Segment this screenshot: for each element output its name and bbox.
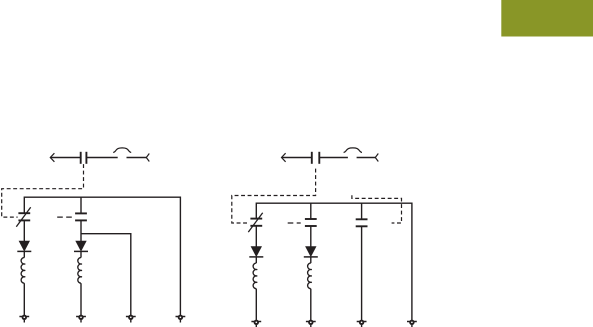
inductor L2 [78, 258, 82, 284]
capacitor C2 [75, 213, 87, 220]
feed line arrow (right circuit) [282, 153, 312, 162]
wire L3 to ground [255, 289, 257, 322]
tap wire node to third branch [81, 234, 131, 317]
feed line arrow (left circuit) [50, 153, 80, 162]
ground [357, 320, 367, 327]
wire link gap to fork [127, 157, 147, 159]
diode D1 [17, 241, 31, 251]
capacitor C4 [305, 219, 317, 226]
wire link gap to fork (right) [357, 157, 376, 159]
dashed trimmer linkage (right side) [352, 195, 402, 223]
ground [126, 315, 136, 323]
ground [407, 320, 417, 327]
variable capacitor VC2 [248, 213, 262, 232]
ground [251, 320, 261, 327]
wire C3 to link gap [319, 157, 348, 159]
branch wire bus to C4 [310, 203, 312, 219]
mechanical linkage dashed path (left circuit) [2, 164, 84, 217]
inductor L1 [21, 258, 25, 284]
diode D4 [304, 247, 318, 257]
dashed gang link to C4 [288, 222, 301, 224]
ground [306, 320, 316, 327]
wire L1 to ground [23, 283, 25, 316]
wire D3 to L3 [255, 257, 257, 263]
bus wire with end branches (left circuit) [24, 197, 180, 316]
inductor L4 [308, 263, 312, 289]
wire C4 to D4 [310, 226, 312, 247]
ground [76, 315, 86, 323]
wire D1 to L1 [23, 251, 25, 257]
diode D2 [74, 241, 88, 251]
capacitor C5 [356, 219, 368, 226]
wire D2 to L2 [80, 251, 82, 257]
feed line fork end (right circuit) [375, 154, 378, 162]
diode D3 [249, 247, 263, 257]
ground [19, 315, 29, 323]
bus wire with end branches (right circuit) [256, 203, 412, 321]
wire VC2 to D3 [255, 226, 257, 247]
wire D4 to L4 [310, 257, 312, 263]
branch wire bus to C5 [361, 203, 363, 219]
feed line fork end (left circuit) [146, 154, 149, 162]
coupling capacitor C1 [81, 152, 87, 164]
wire C2 to D2 [80, 220, 82, 241]
inductor L3 [253, 263, 257, 289]
variable capacitor VC1 [16, 207, 30, 226]
mechanical linkage dashed path (right circuit) [232, 169, 316, 223]
dashed gang link to C2 [57, 216, 72, 218]
link coupling arc L-link [113, 148, 131, 153]
wire L2 to ground [80, 283, 82, 316]
branch wire bus to C2 [80, 197, 82, 213]
page corner color block [501, 0, 593, 37]
wire VC1 to D1 [23, 220, 25, 241]
wire C5 to ground [361, 226, 363, 321]
link coupling arc R-link [344, 148, 362, 153]
wire L4 to ground [310, 289, 312, 322]
wire C1 to link gap [86, 157, 117, 159]
ground [176, 315, 186, 323]
coupling capacitor C3 [312, 152, 320, 164]
